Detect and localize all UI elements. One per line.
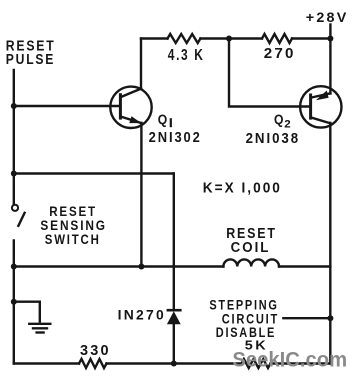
- wire bottom left segment: [14, 362, 79, 364]
- wire node A down to Q2 base: [229, 39, 311, 107]
- label K=X 1,000: [203, 180, 282, 197]
- resistor R3 330: [79, 359, 107, 368]
- svg-text:+28V: +28V: [306, 10, 349, 26]
- label RESET COIL: [226, 225, 277, 255]
- label 5K: [245, 338, 268, 352]
- transistor Q1 2N1302: [110, 87, 151, 128]
- label STEPPING CIRCUIT DISABLE: [209, 297, 279, 340]
- watermark SeekIC.com: [232, 348, 347, 371]
- svg-text:COIL: COIL: [231, 238, 271, 255]
- node A: R1/R2/Q2 base junction: [226, 36, 232, 42]
- wire right rail lower (Q2 collector down): [329, 123, 331, 364]
- node: left rail / coil wire junction: [11, 264, 17, 270]
- wire Q1 base: [14, 105, 121, 107]
- wire Q1 collector up: [140, 39, 142, 89]
- svg-text:K=X I,000: K=X I,000: [203, 180, 282, 197]
- label 2N1302: [149, 128, 202, 145]
- svg-text:4.3 K: 4.3 K: [168, 45, 205, 63]
- wire ground stub: [14, 302, 40, 322]
- svg-text:2NI038: 2NI038: [246, 130, 300, 147]
- wire left rail upper (reset pulse input): [13, 70, 15, 205]
- power +28V: [306, 10, 349, 38]
- svg-text:2NI302: 2NI302: [149, 128, 202, 145]
- label 270: [264, 45, 296, 62]
- resistor R4 5K: [242, 359, 271, 368]
- label Q2: [274, 111, 291, 130]
- node: left rail / ground stub junction: [11, 299, 17, 305]
- node: +28V supply junction: [327, 36, 333, 42]
- wire top rail R1 to node A: [200, 37, 229, 39]
- label 2N1038: [246, 130, 300, 147]
- svg-text:2: 2: [284, 119, 290, 131]
- wire top rail node A to R2: [229, 37, 262, 39]
- node: left rail / Q1 base junction: [11, 103, 17, 109]
- wire diode branch lower: [173, 324, 175, 364]
- svg-text:330: 330: [80, 343, 111, 359]
- wire mid-left horizontal to diode branch: [14, 172, 174, 174]
- svg-text:Q: Q: [158, 111, 167, 127]
- transistor Q2 2N1038: [300, 86, 341, 127]
- wire diode branch upper: [173, 174, 175, 310]
- wire bottom middle segment: [107, 362, 242, 364]
- svg-text:SWITCH: SWITCH: [45, 231, 101, 247]
- wire pointer from CIRCUIT label to right rail: [283, 317, 330, 319]
- switch S1 reset sensing switch: [12, 205, 25, 226]
- label 4.3K: [168, 45, 205, 63]
- ground: [29, 324, 50, 333]
- svg-text:PULSE: PULSE: [6, 51, 55, 67]
- wire top rail Q1 to R1: [141, 37, 168, 39]
- wire left rail lower: [13, 241, 15, 364]
- wire +28V node down to Q2 emitter: [329, 39, 331, 94]
- node: left rail / sensing wire junction: [11, 171, 17, 177]
- node: Q1 emitter / coil wire junction: [138, 264, 144, 270]
- resistor R2 270: [262, 34, 292, 43]
- inductor L1 reset coil: [223, 259, 279, 266]
- label Q1: [158, 111, 172, 127]
- label 1N270: [118, 307, 166, 322]
- label 330: [80, 343, 111, 359]
- wire Q1 emitter down to coil wire: [140, 123, 142, 267]
- wire coil to right rail: [279, 265, 330, 267]
- svg-text:270: 270: [264, 45, 296, 62]
- svg-text:SeekIC.com: SeekIC.com: [232, 348, 347, 371]
- resistor R1 4.3K: [168, 34, 201, 43]
- svg-text:IN270: IN270: [118, 307, 166, 322]
- node: pointer / right rail junction: [327, 315, 333, 321]
- wire coil row left segment: [14, 265, 224, 267]
- label RESET PULSE: [6, 37, 56, 67]
- svg-text:Q: Q: [274, 111, 283, 127]
- wire top rail R2 to +28V node: [292, 37, 330, 39]
- node: diode branch / bottom wire junction: [171, 361, 177, 367]
- wire bottom right segment: [271, 362, 331, 364]
- diode D1 1N270: [167, 310, 182, 324]
- label RESET SENSING SWITCH: [40, 203, 106, 247]
